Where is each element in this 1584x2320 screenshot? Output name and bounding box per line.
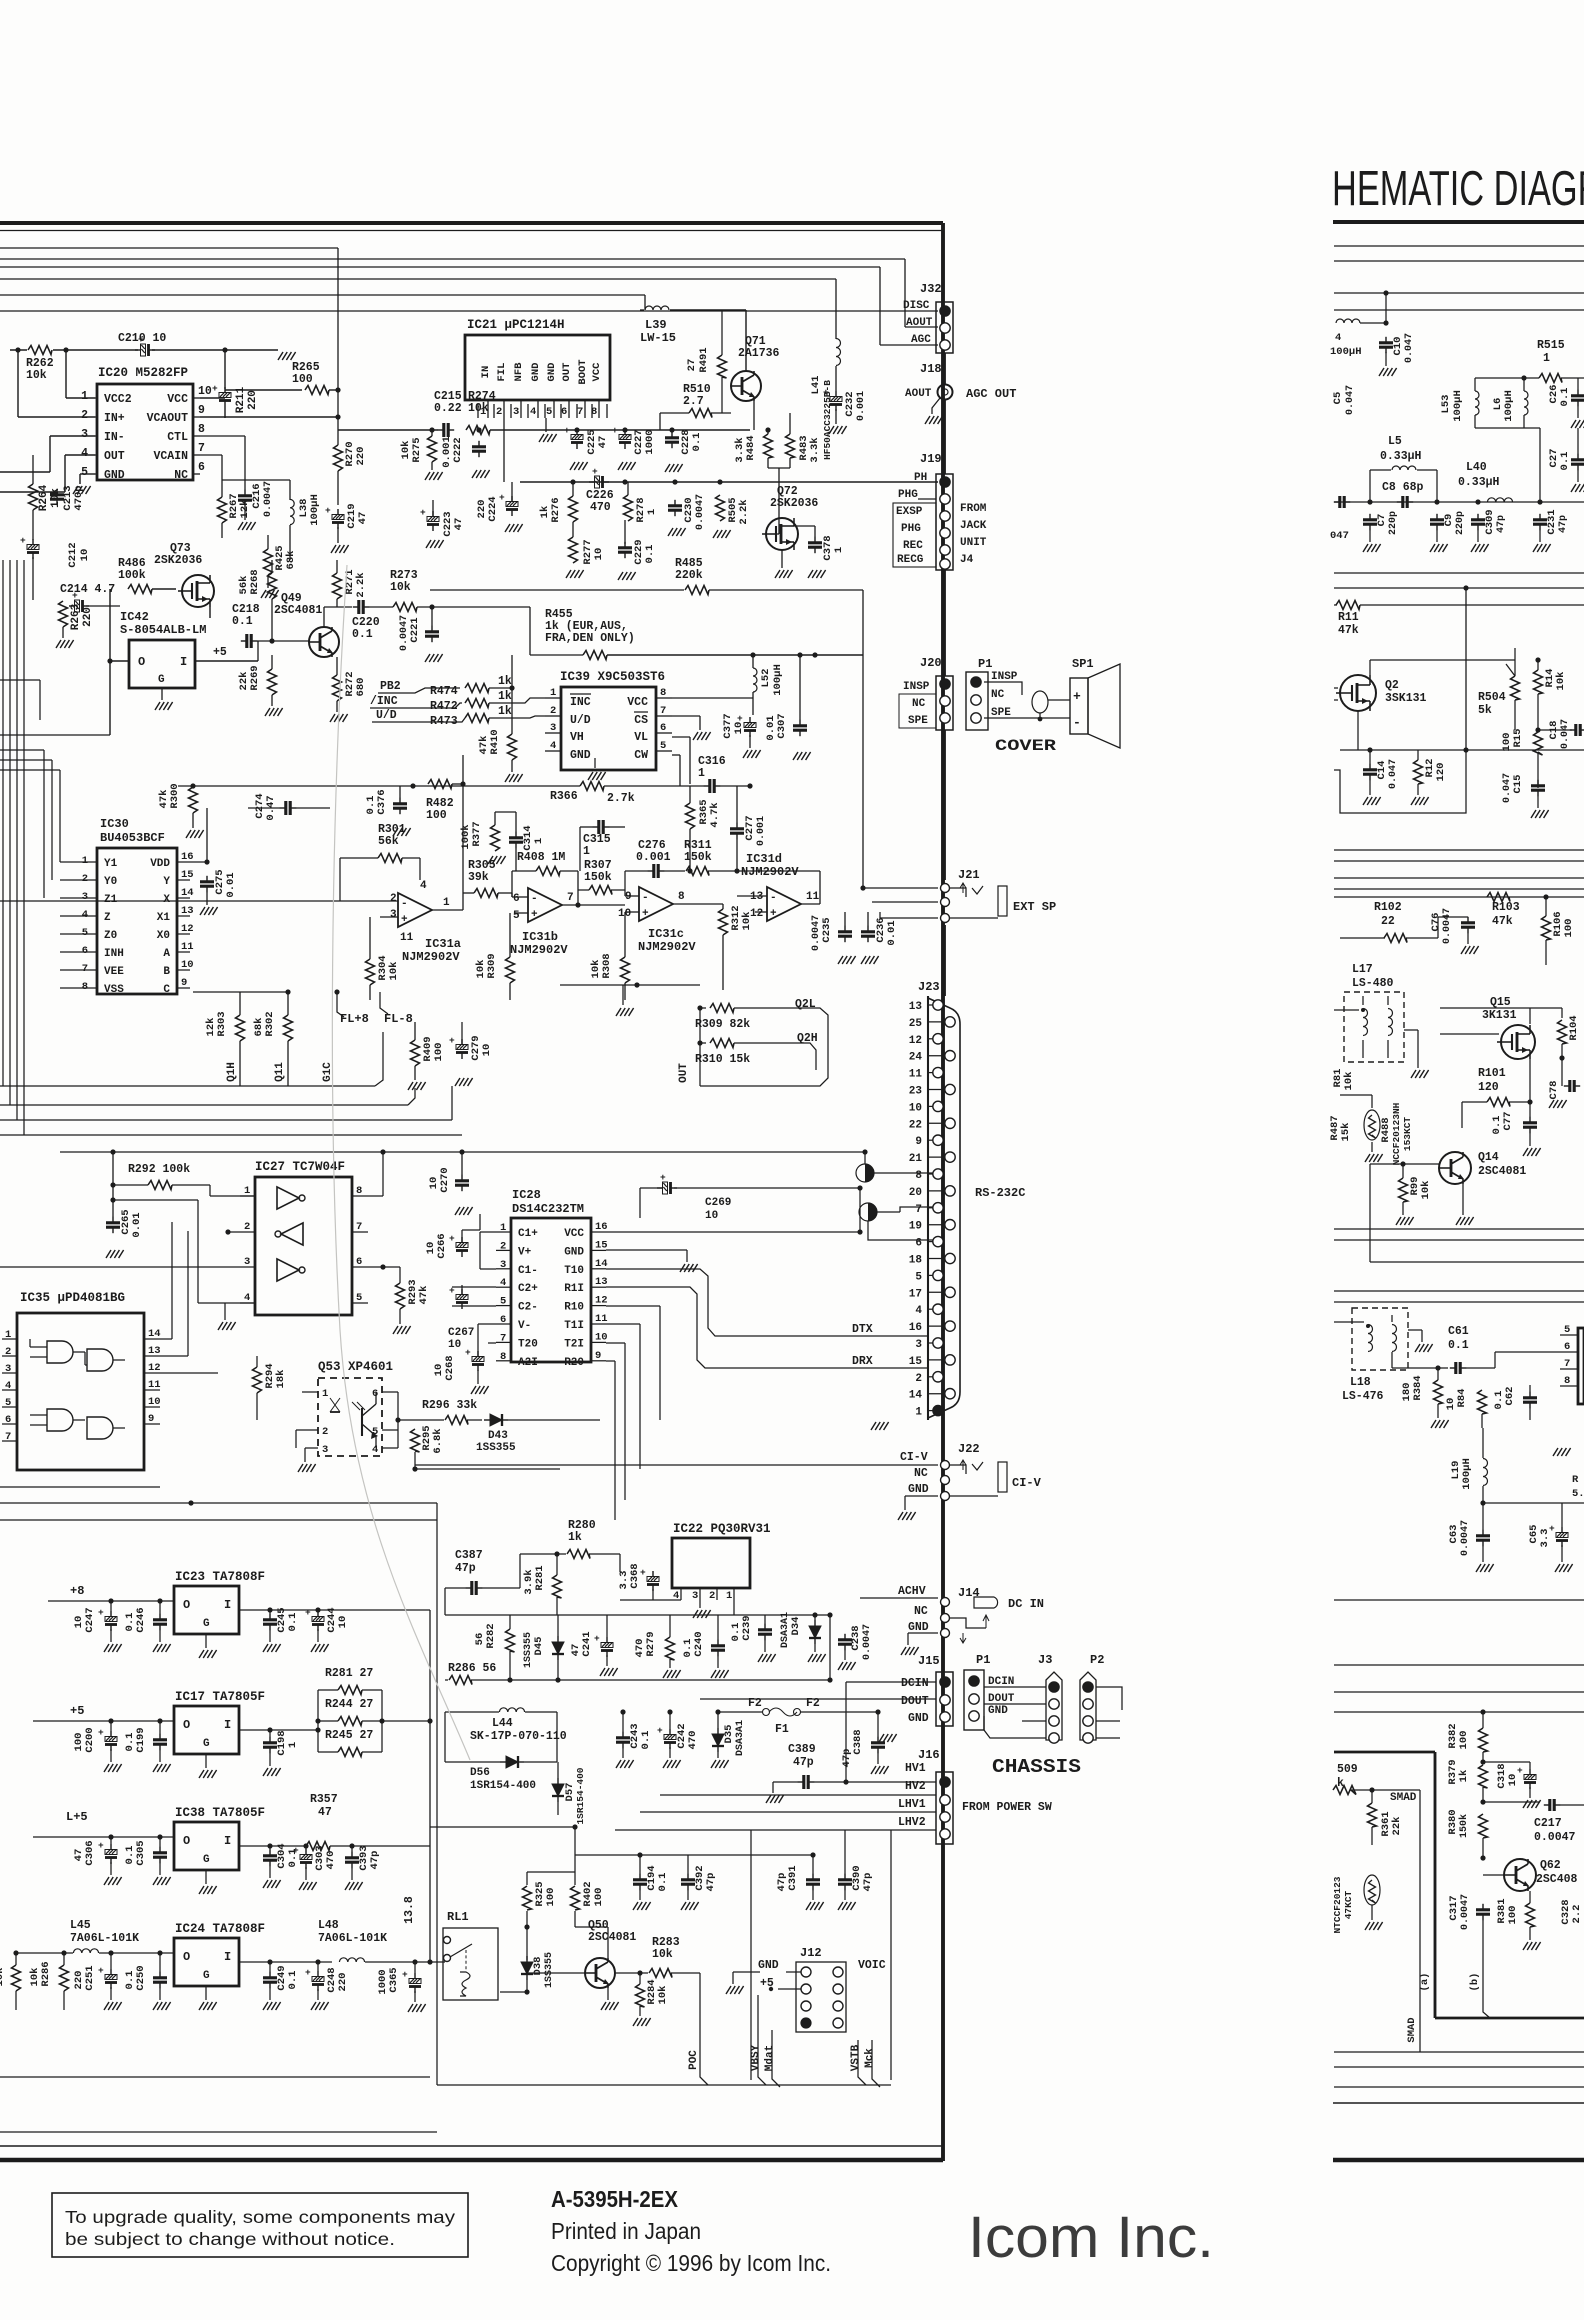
C368 3.3 (647, 1577, 659, 1582)
wire IC38 out + R357 (239, 1845, 306, 1847)
transistor Q14 2SC4081 (1439, 1152, 1471, 1184)
wire IC20 pin1 (66, 397, 95, 399)
svg-text:13: 13 (595, 1276, 608, 1288)
svg-text:3.3k: 3.3k (734, 437, 746, 462)
svg-text:NC: NC (912, 698, 926, 710)
svg-text:6: 6 (372, 1388, 378, 1400)
svg-text:100k: 100k (118, 569, 146, 582)
svg-text:Q14: Q14 (1478, 1151, 1499, 1164)
svg-text:C1-: C1- (518, 1265, 538, 1277)
svg-text:3: 3 (513, 406, 519, 418)
svg-text:7: 7 (356, 1221, 362, 1233)
svg-text:3: 3 (692, 1590, 698, 1602)
svg-text:IC22 PQ30RV31: IC22 PQ30RV31 (673, 1522, 771, 1536)
svg-text:0.01: 0.01 (765, 715, 777, 740)
AND gate A (47, 1341, 73, 1363)
right bottom band (1334, 2051, 1584, 2053)
svg-text:100k: 100k (460, 824, 472, 849)
wire VCAOUT pin9 (200, 416, 338, 418)
R361 22k (1368, 1803, 1377, 1827)
right band lines 3 (1334, 1599, 1584, 1601)
resistor R270 (334, 445, 343, 471)
svg-text:R10: R10 (564, 1302, 584, 1314)
svg-text:AOUT: AOUT (905, 388, 932, 400)
svg-text:27: 27 (686, 359, 698, 372)
svg-text:4: 4 (500, 1277, 506, 1289)
capacitor C212 (27, 545, 39, 550)
opamp IC31a (398, 893, 432, 927)
svg-text:5: 5 (5, 1397, 11, 1409)
svg-text:220p: 220p (1388, 511, 1399, 535)
svg-text:C2+: C2+ (518, 1283, 538, 1295)
svg-text:14: 14 (181, 887, 194, 899)
svg-text:VCAOUT: VCAOUT (147, 412, 189, 425)
svg-text:12: 12 (595, 1295, 608, 1307)
svg-text:47: 47 (318, 1806, 332, 1819)
svg-text:O: O (138, 655, 145, 669)
svg-text:C388: C388 (852, 1729, 864, 1754)
svg-text:C389: C389 (788, 1743, 816, 1756)
svg-text:IC31a: IC31a (425, 937, 461, 951)
svg-text:13: 13 (148, 1345, 161, 1357)
capacitor C221 (425, 630, 439, 633)
svg-text:Q1H: Q1H (226, 1062, 238, 1082)
wire IC27 pin8 (368, 1195, 383, 1197)
svg-text:1: 1 (833, 547, 845, 553)
svg-text:1k: 1k (498, 705, 512, 718)
frame around Q50 area (437, 2084, 891, 2086)
svg-text:PHG: PHG (898, 489, 918, 501)
svg-text:Q15: Q15 (1490, 996, 1511, 1009)
L17 transformer (1344, 992, 1404, 1062)
svg-text:+: + (564, 425, 570, 436)
svg-text:CI-V: CI-V (900, 1451, 928, 1464)
svg-text:220: 220 (247, 390, 259, 410)
svg-text:R263: R263 (70, 603, 82, 630)
resistor R455 (530, 654, 583, 656)
wire R482 node to IC31a (462, 755, 464, 784)
svg-text:FROM: FROM (960, 503, 987, 515)
svg-text:J3: J3 (1038, 1653, 1052, 1667)
resistor R425 (264, 549, 273, 575)
capacitor C275 (200, 880, 214, 883)
svg-text:1SR154-400: 1SR154-400 (470, 1780, 536, 1792)
svg-text:J12: J12 (800, 1946, 822, 1960)
svg-text:150k: 150k (584, 871, 612, 884)
svg-text:C5: C5 (1332, 392, 1344, 405)
svg-text:6: 6 (561, 406, 567, 418)
bus wire y1120 (0, 1119, 452, 1121)
capacitor C266 (456, 1243, 468, 1248)
wire rail y430 under IC21 (545, 429, 750, 431)
svg-text:L5: L5 (1388, 435, 1402, 448)
svg-text:2.2: 2.2 (1571, 1905, 1583, 1924)
wire to J23 pin6 (868, 1221, 933, 1240)
svg-text:2.7: 2.7 (683, 395, 704, 408)
svg-text:DOUT: DOUT (901, 1695, 929, 1708)
svg-text:2SK2036: 2SK2036 (770, 497, 818, 510)
wire IC17 out (239, 1729, 318, 1731)
svg-text:0.0047: 0.0047 (695, 494, 706, 530)
svg-text:0.047: 0.047 (1404, 333, 1415, 363)
capacitor C270 (455, 1179, 469, 1182)
C240 0.1 (711, 1644, 725, 1647)
capacitor C251 (105, 1975, 117, 1980)
left sheet right border (941, 223, 945, 2161)
wire HV2 LHV1 LHV2 (660, 1794, 936, 1796)
IC21 pin number ticks (477, 404, 479, 418)
svg-text:HV1: HV1 (905, 1762, 926, 1775)
svg-text:L44: L44 (492, 1717, 513, 1730)
svg-text:C269: C269 (705, 1197, 731, 1209)
svg-text:3.3: 3.3 (618, 1571, 630, 1590)
svg-text:0.22: 0.22 (434, 402, 462, 415)
svg-text:C240: C240 (693, 1631, 705, 1656)
svg-text:470: 470 (634, 1639, 646, 1658)
svg-text:VOIC: VOIC (858, 1959, 886, 1972)
svg-text:HEMATIC DIAGRAM: HEMATIC DIAGRAM (1332, 162, 1584, 216)
svg-text:J16: J16 (918, 1748, 940, 1762)
AND gate D (87, 1417, 113, 1439)
svg-text:3: 3 (915, 1339, 922, 1351)
svg-text:100µH: 100µH (1452, 390, 1464, 422)
svg-text:NJM2902V: NJM2902V (638, 940, 696, 954)
bus wire y1105 (0, 1104, 408, 1106)
svg-text:1: 1 (480, 406, 486, 418)
svg-text:100µH: 100µH (1503, 390, 1515, 422)
svg-text:R20: R20 (564, 1357, 584, 1369)
ground J18 (932, 398, 940, 414)
svg-text:+: + (612, 425, 618, 436)
svg-text:J21: J21 (958, 868, 980, 882)
svg-text:10: 10 (428, 1177, 440, 1190)
svg-text:13: 13 (750, 891, 764, 903)
svg-text:Copyright © 1996 by Icom Inc.: Copyright © 1996 by Icom Inc. (551, 2250, 831, 2276)
svg-text:+: + (449, 1233, 455, 1244)
svg-text:C387: C387 (455, 1549, 483, 1562)
svg-text:1k: 1k (1458, 1770, 1470, 1783)
svg-text:13.8: 13.8 (403, 1896, 416, 1924)
capacitor C222 (472, 445, 486, 448)
L19 100uH (1483, 1459, 1488, 1486)
resistor R325 100 (523, 1886, 532, 1910)
svg-text:R275: R275 (411, 437, 423, 462)
svg-text:3.3: 3.3 (1539, 1529, 1551, 1548)
bus wire top 6 (0, 310, 938, 312)
svg-text:(a): (a) (1419, 1973, 1431, 1992)
capacitor C223 (427, 517, 439, 522)
AND gate B (87, 1349, 113, 1371)
svg-text:R474: R474 (430, 685, 458, 698)
svg-text:10k: 10k (390, 581, 411, 594)
svg-text:+: + (72, 590, 78, 601)
EXT SP jack (950, 888, 966, 897)
svg-text:IC28: IC28 (512, 1188, 541, 1202)
opamp IC31c (639, 887, 673, 921)
svg-text:2: 2 (81, 409, 88, 422)
svg-text:10k: 10k (652, 1948, 673, 1961)
svg-text:NC: NC (914, 1467, 928, 1480)
right sheet bottom border (1333, 2102, 1584, 2104)
svg-text:680: 680 (355, 678, 367, 697)
svg-text:0.0047: 0.0047 (1460, 1520, 1471, 1556)
svg-text:+5: +5 (70, 1704, 84, 1718)
svg-text:DTX: DTX (852, 1323, 873, 1336)
svg-text:J18: J18 (920, 362, 942, 376)
resistor R304 (366, 959, 375, 985)
wire C210 to ground (225, 349, 278, 351)
svg-text:150k: 150k (1458, 1814, 1470, 1838)
svg-text:GND: GND (908, 1621, 929, 1634)
svg-text:100: 100 (545, 1888, 557, 1907)
svg-text:IC24 TA7808F: IC24 TA7808F (175, 1922, 265, 1936)
svg-text:C391: C391 (787, 1865, 799, 1890)
svg-text:IC31d: IC31d (746, 852, 782, 866)
svg-text:G: G (203, 1618, 210, 1630)
svg-text:IC20 M5282FP: IC20 M5282FP (98, 366, 188, 380)
C231 47p (1533, 518, 1547, 521)
ground L18 (1408, 1329, 1422, 1331)
svg-text:NCCF20123NH: NCCF20123NH (1391, 1102, 1402, 1165)
svg-text:LHV1: LHV1 (898, 1798, 926, 1811)
svg-text:(b): (b) (1469, 1973, 1481, 1992)
svg-text:SP1: SP1 (1072, 657, 1094, 671)
svg-text:UNIT: UNIT (960, 537, 987, 549)
capacitor C377 (744, 723, 756, 728)
diode D43 1SS355 (490, 1414, 502, 1426)
ground C378 (808, 570, 813, 578)
svg-text:R472: R472 (430, 700, 458, 713)
svg-text:1: 1 (82, 855, 88, 867)
svg-text:10: 10 (337, 1616, 349, 1629)
big frame right side (750, 1830, 752, 2080)
svg-text:10: 10 (1445, 1398, 1457, 1411)
svg-text:+: + (770, 908, 777, 920)
svg-text:7: 7 (915, 1204, 922, 1216)
svg-text:6: 6 (356, 1256, 362, 1268)
svg-text:1: 1 (533, 838, 545, 844)
svg-text:VCC: VCC (627, 696, 648, 709)
wire IC27 pin3 (0, 1266, 240, 1268)
C317 0.0047 (1476, 1908, 1490, 1911)
resistor R275 (428, 436, 437, 462)
svg-text:C62: C62 (1504, 1387, 1516, 1406)
inductor L39 (645, 306, 669, 310)
resistor R410 (508, 734, 517, 760)
svg-text:120: 120 (1478, 1081, 1499, 1094)
svg-text:10: 10 (705, 1210, 718, 1222)
inverter gate 1 (277, 1187, 299, 1209)
svg-text:C232: C232 (844, 391, 856, 416)
wire IC20 CTL to C216 (200, 435, 245, 437)
C390 47p (838, 1878, 852, 1881)
capacitor C277 (730, 827, 744, 830)
wire y897 (1334, 896, 1584, 898)
svg-text:47k: 47k (1338, 624, 1359, 637)
svg-text:7: 7 (82, 963, 88, 975)
bold module box right (1334, 1751, 1435, 1754)
svg-text:C247: C247 (84, 1607, 96, 1632)
svg-text:NJM2902V: NJM2902V (510, 943, 568, 957)
svg-text:3: 3 (322, 1444, 328, 1456)
svg-text:10: 10 (595, 1331, 608, 1343)
svg-text:15: 15 (181, 869, 194, 881)
divider band 1 (1334, 849, 1584, 851)
svg-text:220k: 220k (675, 569, 703, 582)
svg-text:OUT: OUT (678, 1063, 690, 1083)
resistor R303 (236, 1015, 245, 1041)
svg-text:153KCT: 153KCT (1402, 1117, 1413, 1152)
resistor R402 100 (571, 1886, 580, 1910)
resistor R284 10k (636, 1984, 645, 2007)
svg-text:509: 509 (1337, 1763, 1358, 1776)
svg-text:C224: C224 (487, 496, 499, 521)
svg-text:47: 47 (357, 512, 369, 525)
svg-text:C14: C14 (1376, 761, 1388, 780)
wire INSP horizontal (872, 901, 938, 903)
ground R300 (186, 830, 191, 838)
svg-text:0.1: 0.1 (352, 628, 373, 641)
svg-text:10: 10 (733, 722, 745, 735)
svg-text:CHASSIS: CHASSIS (992, 1756, 1081, 1778)
capacitor C236 (861, 930, 875, 933)
C318 10 (1524, 1775, 1536, 1780)
wire /INC (370, 703, 462, 708)
svg-text:3: 3 (550, 722, 556, 734)
wire IC42 right +5 (195, 660, 258, 662)
svg-text:C268: C268 (444, 1355, 456, 1380)
svg-text:1: 1 (915, 1407, 922, 1419)
svg-text:15: 15 (595, 1239, 608, 1251)
svg-text:21: 21 (909, 1153, 923, 1165)
svg-text:VL: VL (634, 731, 648, 744)
bus wire y1152 (+ rail) (60, 1151, 865, 1153)
svg-text:12: 12 (909, 1035, 922, 1047)
wire +5 to J12 (778, 1988, 801, 1990)
svg-text:4.7k: 4.7k (709, 802, 721, 827)
right band lines y573-588 (1334, 572, 1584, 574)
wire IC20 pin3 (50, 435, 95, 437)
svg-text:R292 100k: R292 100k (128, 1163, 190, 1176)
svg-text:L40: L40 (1466, 461, 1487, 474)
wire R292 to IC27 pins (209, 1185, 211, 1196)
svg-text:C376: C376 (376, 789, 388, 814)
svg-text:10: 10 (73, 1616, 85, 1629)
svg-text:R286: R286 (40, 1961, 52, 1986)
svg-text:0.1: 0.1 (682, 1639, 694, 1658)
svg-text:0.01: 0.01 (225, 872, 237, 897)
svg-text:R281 27: R281 27 (325, 1667, 373, 1680)
svg-text:Y0: Y0 (104, 876, 117, 888)
svg-text:1: 1 (583, 845, 590, 858)
svg-text:VBSY: VBSY (750, 2044, 762, 2071)
svg-text:D43: D43 (488, 1430, 508, 1442)
svg-text:DCIN: DCIN (901, 1677, 929, 1690)
svg-text:11: 11 (148, 1379, 161, 1391)
inductor L41 (836, 339, 841, 366)
capacitor C228 (665, 436, 679, 439)
svg-text:0.047: 0.047 (1560, 719, 1571, 749)
capacitor C198 (263, 1741, 277, 1744)
svg-text:0.1: 0.1 (691, 433, 703, 452)
svg-text:20: 20 (909, 1187, 922, 1199)
svg-text:2SC408: 2SC408 (1536, 1873, 1578, 1886)
svg-text:0.0047: 0.0047 (263, 481, 274, 517)
wire VCC rail to R265 (225, 389, 302, 391)
gate wiring IC35 (30, 1346, 47, 1348)
svg-text:C239: C239 (741, 1615, 753, 1640)
svg-text:5: 5 (660, 740, 666, 752)
svg-text:1: 1 (5, 1329, 11, 1341)
svg-text:R308: R308 (601, 953, 613, 978)
svg-text:18k: 18k (275, 1370, 287, 1389)
svg-text:O: O (183, 1834, 190, 1848)
svg-text:0.1: 0.1 (1493, 1391, 1505, 1410)
capacitor C199 (153, 1738, 167, 1741)
svg-text:I: I (224, 1598, 231, 1612)
svg-text:0.1: 0.1 (1448, 1339, 1469, 1352)
svg-text:D45: D45 (533, 1637, 545, 1656)
svg-text:NC: NC (914, 1605, 928, 1618)
svg-text:47k: 47k (478, 736, 490, 755)
svg-text:25: 25 (909, 1018, 923, 1030)
svg-text:12: 12 (148, 1362, 161, 1374)
svg-text:10k: 10k (657, 1986, 669, 2005)
svg-text:100µH: 100µH (309, 494, 321, 526)
C243 0.1 (616, 1736, 630, 1739)
svg-text:DCIN: DCIN (988, 1676, 1014, 1688)
wire shield B (877, 1211, 900, 1213)
rail y1615 (445, 1614, 734, 1616)
svg-text:10k: 10k (29, 1968, 41, 1987)
svg-text:C266: C266 (436, 1233, 448, 1258)
outer loop wires (0, 2076, 430, 2078)
svg-text:be subject to change without n: be subject to change without notice. (65, 2229, 395, 2249)
svg-text:1000: 1000 (377, 1969, 389, 1994)
svg-text:10: 10 (433, 1364, 445, 1377)
svg-text:0.1: 0.1 (232, 615, 253, 628)
D34 DSA3A1 (809, 1626, 821, 1638)
svg-text:NC: NC (991, 689, 1005, 701)
svg-text:11: 11 (181, 941, 194, 953)
svg-text:Q2: Q2 (1385, 679, 1399, 692)
svg-text:R515: R515 (1537, 339, 1565, 352)
svg-text:R491: R491 (698, 347, 710, 372)
C15 0.047 (1531, 784, 1545, 787)
wire to IC39 area (529, 607, 531, 655)
svg-text:Y: Y (163, 876, 170, 888)
svg-text:3: 3 (5, 1363, 11, 1375)
svg-text:LS-476: LS-476 (1342, 1390, 1384, 1403)
svg-text:P2: P2 (1090, 1653, 1104, 1667)
svg-text:I: I (180, 655, 187, 669)
C78 cap (1568, 1080, 1571, 1092)
svg-text:L17: L17 (1352, 963, 1373, 976)
wire R484/R483 join to Q72 gate (767, 458, 769, 468)
C62 0.1 (1523, 1396, 1537, 1399)
svg-text:I: I (224, 1950, 231, 1964)
svg-text:10k: 10k (1420, 1181, 1432, 1200)
svg-text:LS-480: LS-480 (1352, 977, 1394, 990)
svg-text:12k: 12k (239, 500, 251, 519)
resistor R483 (786, 434, 795, 458)
ground top mid (871, 1422, 876, 1430)
wire top of R302/R303 (193, 991, 288, 993)
svg-text:IC27 TC7W04F: IC27 TC7W04F (255, 1160, 345, 1174)
svg-text:DSA3A1: DSA3A1 (780, 1612, 791, 1648)
svg-text:0.0047: 0.0047 (1534, 1831, 1576, 1844)
svg-text:1SS355: 1SS355 (523, 1632, 534, 1668)
